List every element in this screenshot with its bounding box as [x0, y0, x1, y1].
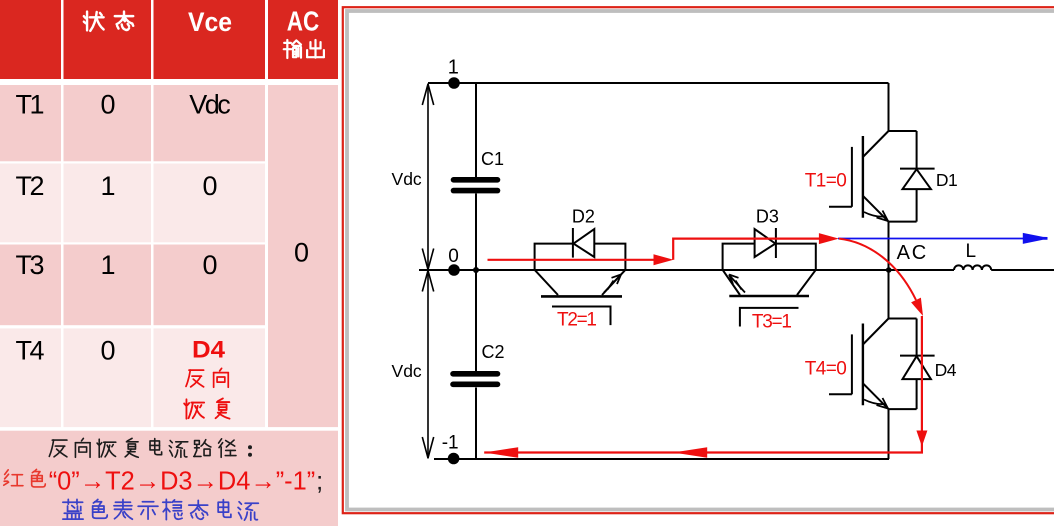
svg-text:T2: T2	[16, 171, 45, 201]
svg-text:C1: C1	[481, 149, 504, 169]
svg-text:Vdc: Vdc	[392, 169, 422, 189]
svg-text:AC: AC	[897, 242, 928, 264]
svg-text:1: 1	[100, 171, 115, 201]
svg-text:Vdc: Vdc	[189, 90, 231, 120]
svg-text:0: 0	[202, 250, 217, 280]
svg-text:T4=0: T4=0	[805, 358, 847, 379]
svg-text:“0”→T2→D3→D4→”-1”: “0”→T2→D3→D4→”-1”	[49, 466, 316, 496]
svg-text:T2=1: T2=1	[557, 310, 597, 331]
svg-text:1: 1	[448, 57, 459, 79]
svg-text:D3: D3	[756, 207, 779, 227]
svg-text:L: L	[966, 241, 977, 262]
svg-text:T3: T3	[16, 250, 45, 280]
svg-text:;: ;	[316, 466, 323, 496]
svg-text:0: 0	[294, 238, 309, 268]
svg-text:1: 1	[100, 250, 115, 280]
svg-text:0: 0	[202, 171, 217, 201]
svg-text:0: 0	[100, 336, 115, 366]
svg-text:Vce: Vce	[188, 7, 232, 37]
svg-text:T3=1: T3=1	[752, 311, 792, 332]
svg-text:D1: D1	[936, 170, 957, 190]
svg-text:T1: T1	[16, 90, 45, 120]
svg-text:T4: T4	[16, 336, 45, 366]
svg-text:0: 0	[100, 90, 115, 120]
svg-text:C2: C2	[482, 342, 505, 362]
svg-text:-1: -1	[442, 433, 459, 454]
svg-text:T1=0: T1=0	[805, 170, 847, 191]
svg-text:D4: D4	[935, 360, 957, 380]
svg-text:AC: AC	[287, 6, 320, 37]
svg-text:D2: D2	[572, 207, 595, 227]
svg-text:Vdc: Vdc	[392, 361, 422, 381]
svg-text:0: 0	[448, 246, 459, 267]
svg-text:D4: D4	[192, 337, 226, 364]
